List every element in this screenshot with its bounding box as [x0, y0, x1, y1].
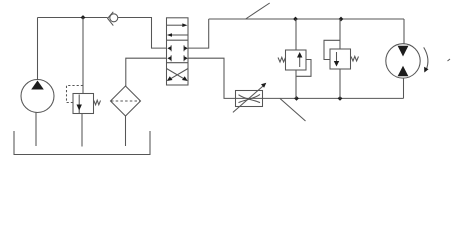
wire: top rail right: [209, 18, 404, 20]
junction: top rail / relief valve V2: [293, 17, 298, 22]
flow control valve FC1 (variable throttle): [233, 83, 266, 113]
DV1 top box arrow left: [172, 34, 188, 36]
wire: relief valve to tank: [81, 114, 83, 147]
wire: check valve to directional valve P port: [118, 18, 167, 49]
wire: V3 vertical from top rail: [339, 19, 341, 49]
wire: top rail down to motor: [403, 19, 405, 44]
wire: pump suction into tank: [35, 113, 37, 147]
rotation arrow (motor): [424, 47, 429, 72]
relief valve V2: [278, 50, 311, 76]
DV1 bottom box crossed arrows: [169, 69, 188, 80]
wire: filter up to directional valve T port: [126, 58, 167, 86]
wire: filter down to tank: [125, 116, 127, 146]
wire: V2 vertical from top rail: [295, 19, 297, 50]
annotation leader line (bottom): [280, 99, 306, 122]
wire: valve B port down to flow control valve: [188, 58, 263, 98]
wire: V2 down to bottom rail: [295, 76, 297, 98]
wire: bottom rail (flow valve to motor): [263, 97, 404, 99]
wire: motor bottom to bottom rail: [403, 78, 405, 98]
motor M1: [386, 44, 420, 78]
directional valve DV1 (3-position, vertical stack): [167, 18, 189, 85]
junction: top rail / relief valve V3: [339, 17, 344, 22]
DV1 middle box blocked port lower-left: [170, 55, 172, 61]
tank T1: [14, 131, 150, 155]
wire: pump outlet up to top rail: [37, 18, 39, 80]
check valve CV1: [108, 12, 118, 26]
junction: relief valve branch: [81, 15, 86, 20]
DV1 middle box blocked port upper-right: [183, 45, 185, 51]
wire: relief valve branch down: [82, 18, 84, 94]
wire: valve A port to top rail: [188, 19, 209, 48]
annotation leader line (top): [246, 3, 270, 19]
pump P1: [21, 80, 54, 113]
relief valve V1 (pump relief): [67, 86, 101, 114]
filter F1: [111, 86, 141, 116]
DV1 top box arrow right: [167, 24, 183, 26]
DV1 middle box blocked port upper-left: [170, 45, 172, 51]
junction: bottom rail / relief valve V2: [294, 96, 299, 101]
junction: bottom rail / relief valve V3: [338, 96, 343, 101]
DV1 middle box blocked port lower-right: [183, 55, 185, 61]
stray mark: [448, 59, 451, 61]
wire: V3 down to bottom rail: [339, 69, 341, 98]
relief valve V3: [324, 40, 359, 69]
wire: top rail left (pump to check valve): [38, 17, 108, 19]
